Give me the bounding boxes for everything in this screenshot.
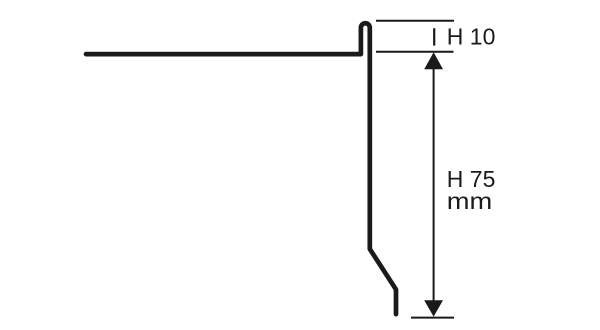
extension line middle (flange top level) [376, 51, 454, 53]
profile outline (edge trim cross-section) [86, 23, 396, 314]
arrowhead up [424, 52, 443, 69]
extension line top (hook top level) [376, 20, 454, 22]
dimension stem H 75 [433, 68, 435, 302]
svg-text:mm: mm [447, 188, 493, 214]
extension line bottom (profile base level) [411, 317, 454, 319]
arrowhead down [424, 300, 443, 316]
tick mark for H 10 [433, 28, 435, 45]
svg-text:H 10: H 10 [447, 24, 496, 50]
